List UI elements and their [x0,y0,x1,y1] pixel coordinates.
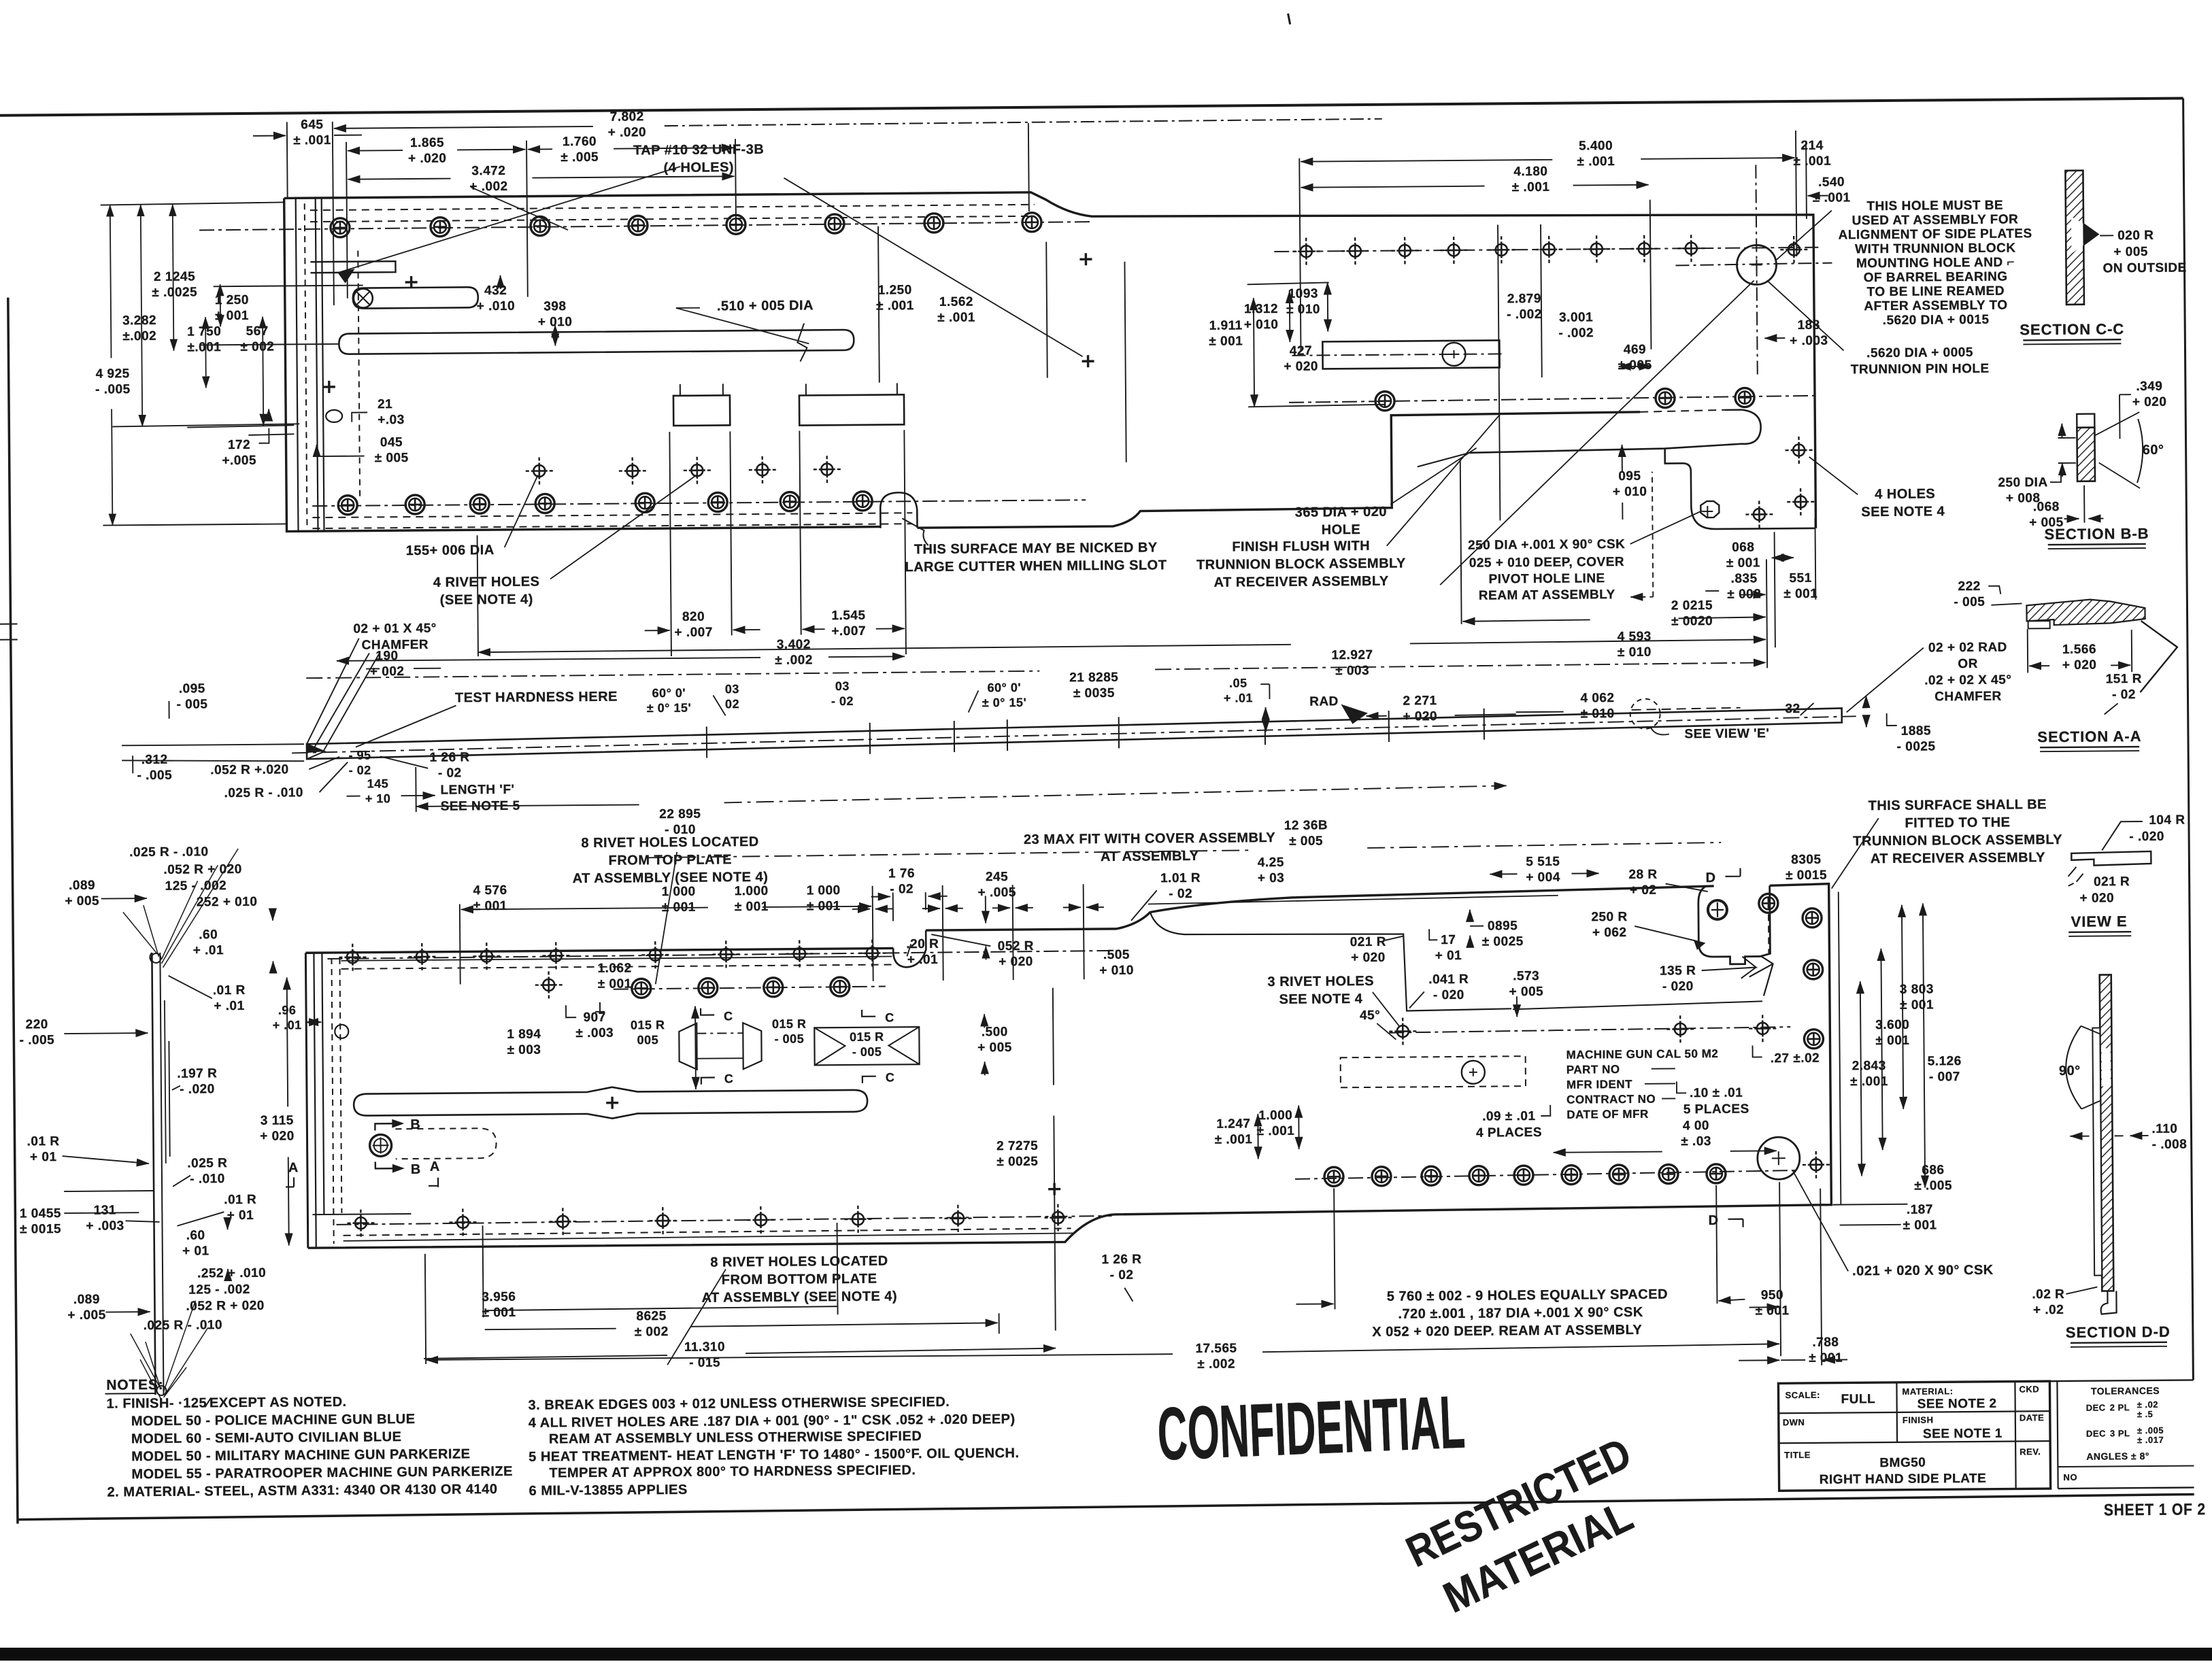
svg-text:+ 010: + 010 [1099,964,1134,978]
svg-text:± 001: ± 001 [1809,1351,1843,1365]
top edge speck [1288,14,1290,24]
svg-text:- 02: - 02 [2112,687,2136,702]
svg-text:+ 005: + 005 [65,894,99,909]
middle bar outline [307,708,1842,759]
svg-text:398: 398 [543,299,566,313]
svg-text:± 001: ± 001 [473,899,507,913]
keyhole 135R wedge [1749,956,1773,996]
svg-text:± 010: ± 010 [1286,303,1320,317]
svg-text:± 0025: ± 0025 [996,1155,1038,1169]
svg-text:± .002: ± .002 [1197,1357,1235,1372]
top plate mid rivet row (4 rivet holes) [619,457,646,484]
svg-text:427: 427 [1290,344,1312,358]
svg-text:- .002: - .002 [1507,307,1542,322]
svg-text:.187: .187 [1907,1202,1933,1217]
svg-text:45°: 45° [1360,1008,1380,1023]
svg-text:MACHINE GUN CAL 50 M2: MACHINE GUN CAL 50 M2 [1566,1047,1719,1062]
bottom plate lip lines bottom [343,1228,1071,1235]
svg-text:- 02: - 02 [438,766,462,780]
svg-text:CHAMFER: CHAMFER [1934,690,2002,704]
section B-B bar [2077,428,2095,481]
svg-text:03: 03 [725,682,739,696]
svg-text:- 02: - 02 [831,694,854,708]
svg-text:.5620 DIA + 0015: .5620 DIA + 0015 [1883,313,1990,328]
top plate lip dashed lines lower [312,513,912,517]
svg-text:432: 432 [484,284,507,298]
svg-text:TRUNNION BLOCK ASSEMBLY: TRUNNION BLOCK ASSEMBLY [1196,556,1406,573]
svg-text:TAP #10 32 UNF-3B: TAP #10 32 UNF-3B [633,142,764,158]
section D-D label [2066,1323,2171,1347]
svg-text:03: 03 [835,679,850,693]
svg-text:AT RECEIVER ASSEMBLY: AT RECEIVER ASSEMBLY [1214,574,1389,590]
svg-text:± .003: ± .003 [575,1026,614,1040]
svg-text:(SEE NOTE 4): (SEE NOTE 4) [440,592,533,608]
svg-text:+ .02: + .02 [2033,1303,2064,1317]
svg-text:± .001: ± .001 [1512,180,1550,194]
svg-text:± .001: ± .001 [293,133,331,148]
section C-C bar [2065,171,2084,305]
top plate bottom notch [880,492,917,528]
left dim verticals [110,205,112,358]
svg-text:.312: .312 [141,753,168,767]
svg-text:250 DIA: 250 DIA [1998,475,2047,490]
svg-text:5.400: 5.400 [1579,139,1613,153]
svg-text:SCALE:: SCALE: [1785,1390,1820,1400]
left detail bar [152,953,155,1395]
svg-text:USED AT ASSEMBLY FOR: USED AT ASSEMBLY FOR [1852,212,2019,228]
svg-text:± 001: ± 001 [1756,1304,1790,1318]
bottom plate rivet line top [327,951,1116,959]
svg-text:AT ASSEMBLY (SEE NOTE 4): AT ASSEMBLY (SEE NOTE 4) [701,1289,897,1305]
svg-text:MOUNTING HOLE AND ⌐: MOUNTING HOLE AND ⌐ [1856,255,2015,271]
svg-text:60° 0': 60° 0' [988,681,1022,694]
svg-text:± 0° 15': ± 0° 15' [647,701,692,715]
svg-text:5 PLACES: 5 PLACES [1683,1102,1749,1117]
svg-text:- .010: - .010 [190,1172,225,1186]
svg-text:1.01 R: 1.01 R [1160,871,1201,885]
svg-text:.110: .110 [2151,1122,2177,1136]
svg-text:RIGHT HAND SIDE PLATE: RIGHT HAND SIDE PLATE [1820,1472,1987,1487]
svg-text:± .001: ± .001 [1813,190,1851,205]
section B-B label [2045,525,2149,549]
svg-text:- .005: - .005 [137,768,172,783]
top plate left edge band verticals [296,198,299,531]
svg-text:021 R: 021 R [2094,875,2130,889]
section B-B angle lines [2094,412,2139,436]
svg-text:1 26 R: 1 26 R [1101,1253,1141,1267]
svg-text:.252 + .010: .252 + .010 [197,1266,266,1281]
svg-text:NOTES:: NOTES: [106,1377,163,1393]
svg-text:907: 907 [583,1011,605,1025]
svg-text:± .001: ± .001 [1850,1074,1888,1089]
svg-text:TRUNNION PIN HOLE: TRUNNION PIN HOLE [1851,362,1990,377]
svg-text:567: 567 [246,324,269,339]
foot block outline [1665,447,1815,530]
svg-text:+ 010: + 010 [1613,485,1647,499]
svg-text:SEE NOTE 4: SEE NOTE 4 [1861,504,1945,520]
trapezoid cut mark 1 [679,1023,697,1070]
tap leader left [337,167,681,273]
centerline cross upper [405,276,418,288]
svg-text:4 576: 4 576 [473,883,507,898]
right end holes column [1759,894,1778,913]
svg-text:.09 ± .01: .09 ± .01 [1482,1109,1535,1124]
svg-text:+ 020: + 020 [1351,951,1386,965]
svg-text:469: 469 [1624,343,1646,357]
svg-text:1.911: 1.911 [1209,318,1243,333]
middle bar centerline [292,716,1856,753]
svg-text:21: 21 [378,397,392,411]
svg-text:+ .003: + .003 [1790,334,1828,348]
svg-text:± 0025: ± 0025 [1482,934,1524,949]
svg-text:DATE: DATE [2020,1412,2045,1423]
svg-text:± .005: ± .005 [1914,1178,1952,1193]
bottom plate keyhole notch [1698,885,1771,964]
svg-text:± .5: ± .5 [2137,1409,2154,1419]
svg-text:± 0020: ± 0020 [1671,614,1713,628]
svg-text:THIS SURFACE MAY BE NICKED BY: THIS SURFACE MAY BE NICKED BY [914,540,1158,557]
svg-text:± 001: ± 001 [1726,556,1760,570]
taper inner line [1418,453,1470,467]
small hole for 155 dia [526,457,553,484]
svg-text:145: 145 [367,777,389,790]
svg-text:SEE VIEW 'E': SEE VIEW 'E' [1684,726,1769,741]
svg-text:ANGLES ± 8°: ANGLES ± 8° [2086,1450,2149,1462]
svg-text:DWN: DWN [1783,1417,1805,1427]
svg-text:- 005: - 005 [852,1045,882,1059]
svg-text:.052 R + 020: .052 R + 020 [163,862,242,877]
svg-text:MODEL 50 - MILITARY MACHINE GU: MODEL 50 - MILITARY MACHINE GUN PARKERIZ… [131,1446,470,1464]
svg-text:250 R: 250 R [1591,910,1627,924]
csk hex hole [1700,501,1719,517]
D-D bottom hook [2100,1291,2116,1314]
svg-text:052 R: 052 R [998,939,1034,953]
title block inner lines [1779,1411,2050,1413]
svg-text:+ .007: + .007 [674,626,713,640]
svg-text:± .001: ± .001 [876,299,914,313]
svg-text:TOLERANCES: TOLERANCES [2091,1385,2160,1397]
svg-text:2 1245: 2 1245 [154,269,195,284]
svg-text:245: 245 [986,870,1008,884]
bottom plate outline top [305,886,1715,953]
rectangle cut mark with chamfer corners [814,1027,919,1065]
svg-text:155+ 006 DIA: 155+ 006 DIA [406,543,495,558]
svg-text:D: D [1706,870,1716,885]
svg-text:± 001: ± 001 [1900,998,1934,1012]
svg-text:+ 01: + 01 [182,1244,210,1258]
427 slot rectangle [1322,340,1499,369]
svg-text:1.562: 1.562 [939,295,973,309]
svg-text:4 593: 4 593 [1618,630,1652,644]
svg-text:.505: .505 [1103,948,1130,962]
svg-text:+ .005: + .005 [977,885,1016,900]
top plate lower rivet row [338,496,357,515]
svg-text:8 RIVET HOLES LOCATED: 8 RIVET HOLES LOCATED [581,834,758,851]
stray small hole [535,971,563,998]
small hole upper left [335,1025,348,1038]
svg-text:- .008: - .008 [2152,1138,2188,1152]
svg-text:1093: 1093 [1288,287,1318,301]
svg-text:645: 645 [301,118,323,132]
small oval hole 21 [326,410,342,422]
svg-text:NO: NO [2063,1472,2077,1482]
svg-text:± .017: ± .017 [2137,1435,2164,1445]
svg-text:- .020: - .020 [180,1082,215,1096]
svg-text:21 8285: 21 8285 [1069,670,1118,685]
leader 3472 [471,186,568,231]
svg-text:1.760: 1.760 [563,135,597,149]
svg-text:SECTION D-D: SECTION D-D [2066,1323,2171,1341]
svg-text:± .02: ± .02 [2137,1399,2158,1410]
svg-text:.197 R: .197 R [177,1066,217,1081]
svg-text:±.002: ±.002 [122,329,156,343]
svg-text:± 0015: ± 0015 [1786,868,1827,883]
centerline cross mid [323,381,335,393]
svg-text:AFTER ASSEMBLY TO: AFTER ASSEMBLY TO [1864,299,2007,314]
svg-text:± 001: ± 001 [735,900,769,914]
bottom plate cover step lines [1150,909,1511,1013]
svg-text:+ .003: + .003 [86,1219,124,1233]
svg-text:+ .01: + .01 [193,943,224,957]
svg-text:250 DIA +.001 X 90° CSK: 250 DIA +.001 X 90° CSK [1468,537,1625,553]
svg-text:± 003: ± 003 [507,1043,541,1057]
top plate rivet centerline lower [312,500,1086,506]
svg-text:0895: 0895 [1488,919,1518,933]
keyhole inner step line [1513,1001,1762,1009]
svg-text:- 005: - 005 [177,697,208,711]
svg-text:+ .010: + .010 [477,299,516,313]
svg-text:5 515: 5 515 [1526,855,1560,869]
svg-text:- .005: - .005 [19,1033,54,1047]
svg-text:THIS SURFACE SHALL BE: THIS SURFACE SHALL BE [1868,797,2047,813]
svg-text:C: C [724,1009,733,1023]
svg-text:.025 R - .010: .025 R - .010 [144,1318,223,1333]
svg-text:172: 172 [228,438,250,452]
svg-text:2. MATERIAL- STEEL, ASTM A331:: 2. MATERIAL- STEEL, ASTM A331: 4340 OR 4… [107,1482,498,1500]
rect cutout window 1 [673,395,730,426]
svg-text:17: 17 [1441,933,1456,947]
svg-text:C: C [886,1070,895,1084]
svg-text:LARGE CUTTER WHEN MILLING SLOT: LARGE CUTTER WHEN MILLING SLOT [905,558,1167,575]
svg-text:+ 020: + 020 [1284,360,1318,374]
svg-text:MODEL 55 - PARATROOPER MACHINE: MODEL 55 - PARATROOPER MACHINE GUN PARKE… [131,1464,513,1482]
svg-text:+ 01: + 01 [30,1150,57,1164]
svg-text:3 RIVET HOLES: 3 RIVET HOLES [1267,974,1374,989]
svg-text:.052 R +.020: .052 R +.020 [210,762,289,777]
svg-text:DEC: DEC [2086,1402,2106,1412]
top plate rivet centerline upper [199,222,1090,230]
bottom plate long slot [354,1085,867,1121]
svg-text:± 002: ± 002 [240,340,274,354]
svg-text:.349: .349 [2136,379,2162,394]
svg-text:015 R: 015 R [631,1018,665,1032]
bottom plate second rivet row (4 large) [614,987,886,989]
svg-text:+ .01: + .01 [907,953,938,967]
svg-text:OR: OR [1958,657,1978,671]
svg-text:DATE OF MFR: DATE OF MFR [1566,1108,1649,1121]
right side vertical dims [1839,892,1841,1205]
view E label [2068,913,2131,936]
middle bar ticks [706,726,707,758]
wedge slot upper edge [1640,410,1724,412]
svg-text:.021 + 020 X 90° CSK: .021 + 020 X 90° CSK [1852,1263,1994,1279]
svg-text:4 925: 4 925 [96,367,130,381]
wedge hook right end [1469,409,1761,452]
svg-text:.60: .60 [199,928,218,942]
svg-text:+ 020: + 020 [999,955,1033,969]
svg-text:+.005: +.005 [222,454,256,468]
phantom dashed vertical [358,251,360,499]
svg-text:± 005: ± 005 [1618,358,1652,373]
svg-text:1 26 R: 1 26 R [430,750,470,764]
427 slot circle [1442,343,1465,366]
svg-text:.540: .540 [1818,175,1845,189]
svg-text:.510 + 005 DIA: .510 + 005 DIA [717,298,814,313]
svg-text:X 052 + 020 DEEP. REAM AT ASS: X 052 + 020 DEEP. REAM AT ASSEMBLY [1372,1323,1642,1340]
section C-C weld triangle [2083,224,2098,245]
9 hole rivet row [1295,1170,1798,1179]
svg-text:214: 214 [1800,139,1823,153]
svg-text:686: 686 [1922,1163,1944,1177]
svg-text:FROM TOP PLATE: FROM TOP PLATE [609,852,733,868]
svg-text:1 76: 1 76 [888,866,915,881]
svg-text:- .002: - .002 [1558,326,1594,340]
svg-text:THIS HOLE MUST BE: THIS HOLE MUST BE [1866,199,2003,214]
svg-text:± .001: ± .001 [937,310,975,324]
svg-text:2 0215: 2 0215 [1671,598,1713,613]
svg-text:+ 01: + 01 [1435,949,1462,963]
svg-text:104 R: 104 R [2149,813,2185,828]
svg-text:AT RECEIVER ASSEMBLY: AT RECEIVER ASSEMBLY [1871,850,2045,866]
svg-text:C: C [885,1011,894,1024]
D-D plate sliver [2092,1028,2102,1276]
svg-text:2 271: 2 271 [1403,694,1437,708]
svg-text:2 PL: 2 PL [2110,1402,2130,1412]
svg-text:FROM BOTTOM PLATE: FROM BOTTOM PLATE [722,1272,877,1288]
svg-text:+ 10: + 10 [365,792,391,805]
svg-text:+ 020: + 020 [260,1129,295,1143]
svg-text:015 R: 015 R [772,1017,807,1030]
svg-text:131: 131 [94,1203,116,1217]
svg-text:- 007: - 007 [1929,1070,1960,1084]
svg-text:.025 R - .010: .025 R - .010 [129,845,209,860]
svg-text:365 DIA + 020: 365 DIA + 020 [1295,505,1387,520]
bottom plate top notch [893,930,926,967]
trunnion centerlines [1756,165,1757,375]
svg-text:1 000: 1 000 [662,885,696,899]
C arrows 2 [862,1010,875,1017]
svg-text:± 0° 15': ± 0° 15' [982,696,1027,710]
svg-text:22 895: 22 895 [659,807,701,821]
bottom plate top rivet row (8 small) [339,944,366,971]
svg-text:- 020: - 020 [1662,979,1694,994]
svg-text:1 000: 1 000 [807,883,841,898]
top plate right portion small-hole row [1274,248,1818,252]
D section arrows [1725,868,1740,877]
svg-text:+ 020: + 020 [2062,658,2097,673]
small tab rectangle [310,261,395,273]
svg-text:.10 ± .01: .10 ± .01 [1690,1086,1743,1101]
datum B circle [369,1134,391,1156]
svg-text:.068: .068 [2033,500,2060,514]
bottom plate left edge band [305,953,307,1248]
C arrows 1 [701,1008,714,1015]
section C-C notch [2071,217,2083,254]
svg-text:3.001: 3.001 [1559,310,1593,324]
svg-text:1.000: 1.000 [735,884,769,898]
scanner black bottom bar [0,1648,2212,1661]
slot break squiggle [797,323,807,361]
svg-text:2 7275: 2 7275 [996,1139,1038,1153]
svg-text:B: B [411,1162,421,1177]
svg-text:(4 HOLES): (4 HOLES) [664,160,735,175]
svg-text:.095: .095 [179,681,205,696]
svg-text:- .005: - .005 [95,382,131,396]
svg-text:± .0025: ± .0025 [152,285,197,300]
svg-text:FITTED TO THE: FITTED TO THE [1905,815,2010,831]
svg-text:1.545: 1.545 [831,609,865,623]
svg-text:± 0015: ± 0015 [20,1222,61,1236]
svg-text:ON OUTSIDE: ON OUTSIDE [2102,260,2186,275]
left detail leaders bottom [130,1300,208,1399]
svg-text:± 010: ± 010 [1618,645,1652,660]
svg-text:02: 02 [725,697,739,711]
notes heading [105,1377,163,1394]
svg-text:± 001: ± 001 [1209,334,1243,348]
svg-text:- .020: - .020 [2129,830,2164,844]
svg-text:A: A [430,1159,440,1174]
svg-text:125 - .002: 125 - .002 [165,879,227,894]
svg-text:.27 ±.02: .27 ±.02 [1771,1051,1820,1066]
svg-text:1.865: 1.865 [410,136,444,150]
svg-text:1.000: 1.000 [1258,1108,1292,1123]
svg-text:.02 R: .02 R [2032,1287,2064,1302]
svg-text:220: 220 [26,1017,48,1032]
sheet bottom border line [18,1494,2194,1519]
svg-text:OF BARREL BEARING: OF BARREL BEARING [1864,270,2008,286]
svg-text:- 005: - 005 [775,1032,805,1045]
bottom plate rivet line bottom [336,1216,1111,1225]
svg-text:± 005: ± 005 [375,451,409,465]
svg-text:222: 222 [1958,579,1981,594]
bottom plate bottom rivet row [347,1209,374,1236]
svg-text:.01 R: .01 R [213,983,246,998]
view E dashed circle [1630,699,1660,729]
svg-text:2.843: 2.843 [1852,1059,1886,1073]
left dim horizontals [101,202,284,205]
svg-text:125 - .002: 125 - .002 [188,1283,250,1297]
dashed slot phantom [395,1128,496,1159]
svg-text:005: 005 [637,1033,659,1047]
svg-text:CKD: CKD [2019,1384,2039,1394]
svg-text:252 + 010: 252 + 010 [197,895,258,910]
svg-text:.573: .573 [1513,969,1539,983]
big csk hole [1758,1137,1800,1179]
svg-text:± .001: ± .001 [1577,154,1615,169]
svg-text:17.565: 17.565 [1195,1342,1237,1356]
svg-text:.788: .788 [1812,1336,1839,1350]
svg-text:± 001: ± 001 [1875,1034,1909,1048]
right portion lower rivet row [1289,396,1820,403]
svg-text:± 005: ± 005 [1289,834,1323,848]
svg-text:020 R: 020 R [2117,228,2154,243]
svg-text:.5620 DIA + 0005: .5620 DIA + 0005 [1866,345,1973,360]
svg-text:23 MAX FIT WITH COVER ASSEMBLY: 23 MAX FIT WITH COVER ASSEMBLY [1024,830,1276,847]
svg-text:ALIGNMENT OF SIDE PLATES: ALIGNMENT OF SIDE PLATES [1839,226,2032,242]
svg-text:.01 R: .01 R [27,1134,60,1149]
svg-text:045: 045 [380,435,403,449]
svg-text:REAM AT ASSEMBLY: REAM AT ASSEMBLY [1479,588,1615,603]
